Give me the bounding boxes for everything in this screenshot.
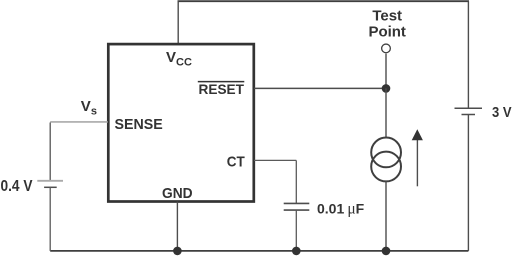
wire: RESET pin to test point node (254, 87, 386, 89)
svg-text:VCC: VCC (166, 49, 192, 68)
capacitor C1 top plate (284, 202, 310, 204)
wire: node down to current source (385, 88, 387, 137)
current source I1 upper circle (371, 138, 401, 168)
svg-text:Test: Test (372, 8, 402, 25)
junction: GND node on ground bus (173, 247, 182, 256)
current source I1 lower circle (371, 152, 401, 182)
svg-text:GND: GND (162, 185, 193, 202)
svg-text:Point: Point (368, 23, 406, 40)
svg-text:Vs: Vs (81, 98, 97, 117)
test point terminal (open circle) (382, 44, 391, 53)
wire: capacitor to bottom rail (295, 210, 297, 251)
wire: CT branch down to capacitor (295, 160, 297, 203)
wire: VCC pin to top rail (177, 1, 179, 43)
overline for RESET (198, 81, 245, 83)
svg-text:RESET: RESET (199, 81, 245, 97)
wire: SENSE pin to left branch (50, 121, 108, 123)
wire: CT pin horizontal (254, 159, 296, 161)
IC U1 body (108, 44, 254, 201)
wire: 0.4V battery to bottom rail (49, 187, 51, 251)
wire: 3V battery to bottom rail (467, 115, 469, 251)
junction: RESET / test point node (382, 84, 391, 93)
junction: capacitor node on ground bus (292, 247, 301, 256)
wire: bottom rail (ground bus) (50, 250, 468, 252)
svg-text:SENSE: SENSE (115, 116, 163, 133)
wire: right rail down to 3V battery (467, 1, 469, 107)
svg-text:0.4 V: 0.4 V (1, 178, 33, 195)
wire: left branch down to 0.4V battery (49, 123, 51, 181)
battery BT2 3V long plate (455, 107, 483, 109)
current direction arrowhead (412, 129, 423, 140)
capacitor C1 bottom plate (284, 209, 310, 211)
battery BT1 0.4V long plate (37, 180, 63, 182)
svg-text:3 V: 3 V (492, 104, 512, 121)
wire: top rail (178, 0, 470, 2)
current direction arrow shaft (416, 139, 418, 186)
battery BT1 0.4V short plate (44, 186, 57, 188)
svg-text:CT: CT (227, 154, 245, 171)
wire: test point down to RESET node (385, 54, 387, 89)
junction: current source node on ground bus (382, 247, 391, 256)
wire: GND pin to bottom rail (176, 202, 178, 251)
wire: current source to bottom rail (385, 181, 387, 251)
battery BT2 3V short plate (462, 114, 476, 116)
svg-text:0.01 μF: 0.01 μF (317, 200, 365, 217)
